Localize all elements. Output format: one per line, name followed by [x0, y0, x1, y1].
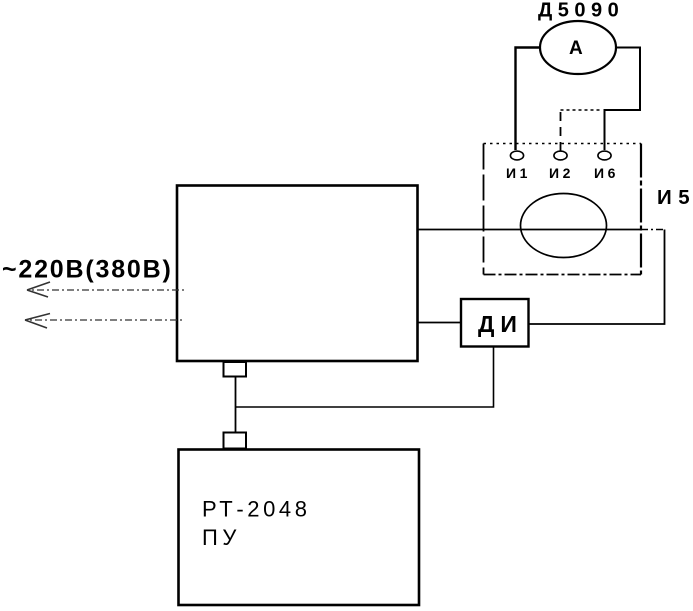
svg-text:ПУ: ПУ — [202, 525, 241, 550]
svg-text:И2: И2 — [549, 165, 574, 181]
svg-text:И6: И6 — [594, 165, 619, 181]
svg-text:И5: И5 — [657, 186, 693, 209]
svg-text:И1: И1 — [506, 165, 531, 181]
svg-text:ДИ: ДИ — [478, 311, 523, 337]
svg-text:Д5090: Д5090 — [538, 0, 624, 22]
svg-text:~220В(380В): ~220В(380В) — [2, 256, 173, 284]
svg-text:А: А — [569, 38, 583, 59]
svg-text:РТ-2048: РТ-2048 — [202, 497, 311, 522]
